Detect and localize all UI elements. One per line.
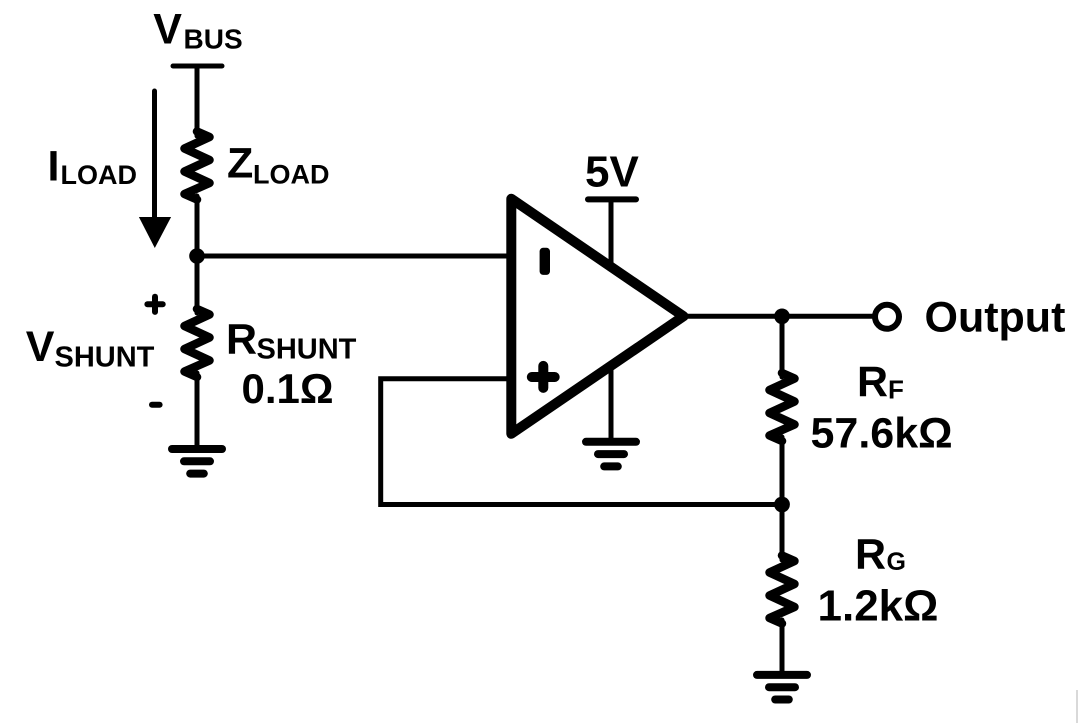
svg-text:LOAD: LOAD [253,160,330,190]
svg-text:SHUNT: SHUNT [257,334,357,366]
svg-text:BUS: BUS [184,24,243,55]
svg-text:LOAD: LOAD [61,160,138,190]
svg-text:0.1Ω: 0.1Ω [242,365,334,412]
svg-text:R: R [226,316,257,364]
svg-text:V: V [26,323,55,371]
svg-text:F: F [888,375,904,405]
svg-text:Z: Z [227,140,253,188]
svg-text:R: R [855,531,886,579]
svg-text:G: G [887,548,906,576]
svg-text:I: I [48,143,60,191]
svg-text:5V: 5V [585,147,639,196]
svg-text:57.6kΩ: 57.6kΩ [811,409,953,457]
svg-text:Output: Output [925,293,1066,341]
svg-text:R: R [857,358,888,406]
svg-text:V: V [153,6,182,54]
svg-text:1.2kΩ: 1.2kΩ [818,582,939,631]
svg-text:SHUNT: SHUNT [55,342,155,374]
